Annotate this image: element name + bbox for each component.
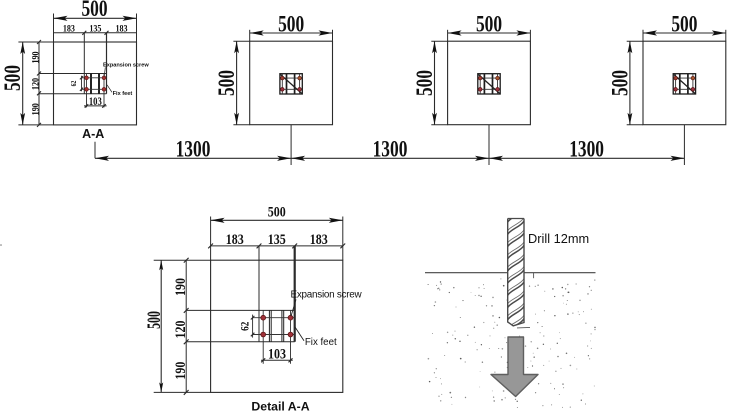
svg-text:500: 500 xyxy=(81,0,107,22)
svg-text:500: 500 xyxy=(268,203,286,220)
svg-text:135: 135 xyxy=(89,23,102,34)
svg-text:103: 103 xyxy=(268,345,286,362)
svg-text:120: 120 xyxy=(30,77,41,90)
svg-text:500: 500 xyxy=(413,70,438,96)
svg-text:500: 500 xyxy=(476,12,502,37)
svg-text:120: 120 xyxy=(172,320,189,338)
svg-text:190: 190 xyxy=(30,103,41,116)
svg-text:1300: 1300 xyxy=(176,137,211,162)
svg-text:Expansion screw: Expansion screw xyxy=(291,290,363,301)
svg-text:190: 190 xyxy=(172,361,189,379)
svg-text:500: 500 xyxy=(1,65,26,91)
svg-text:62: 62 xyxy=(70,81,78,87)
svg-text:183: 183 xyxy=(115,23,128,34)
svg-text:500: 500 xyxy=(215,70,240,96)
svg-text:A-A: A-A xyxy=(82,127,104,141)
svg-text:103: 103 xyxy=(89,96,102,109)
svg-text:500: 500 xyxy=(144,311,164,329)
svg-text:500: 500 xyxy=(278,12,304,37)
svg-text:183: 183 xyxy=(226,231,244,248)
svg-text:135: 135 xyxy=(268,231,286,248)
svg-text:1300: 1300 xyxy=(569,137,604,162)
svg-text:Detail A-A: Detail A-A xyxy=(251,400,309,414)
svg-text:190: 190 xyxy=(30,51,41,64)
svg-text:Fix feet: Fix feet xyxy=(113,91,133,97)
svg-text:190: 190 xyxy=(172,278,189,296)
svg-text:Expansion screw: Expansion screw xyxy=(103,62,149,68)
svg-text:1300: 1300 xyxy=(373,137,408,162)
svg-text:183: 183 xyxy=(63,23,76,34)
svg-text:500: 500 xyxy=(671,12,697,37)
svg-text:500: 500 xyxy=(608,70,633,96)
svg-text:62: 62 xyxy=(240,322,252,331)
svg-text:183: 183 xyxy=(310,231,328,248)
svg-text:Drill 12mm: Drill 12mm xyxy=(528,231,589,246)
svg-text:Fix feet: Fix feet xyxy=(305,337,337,348)
